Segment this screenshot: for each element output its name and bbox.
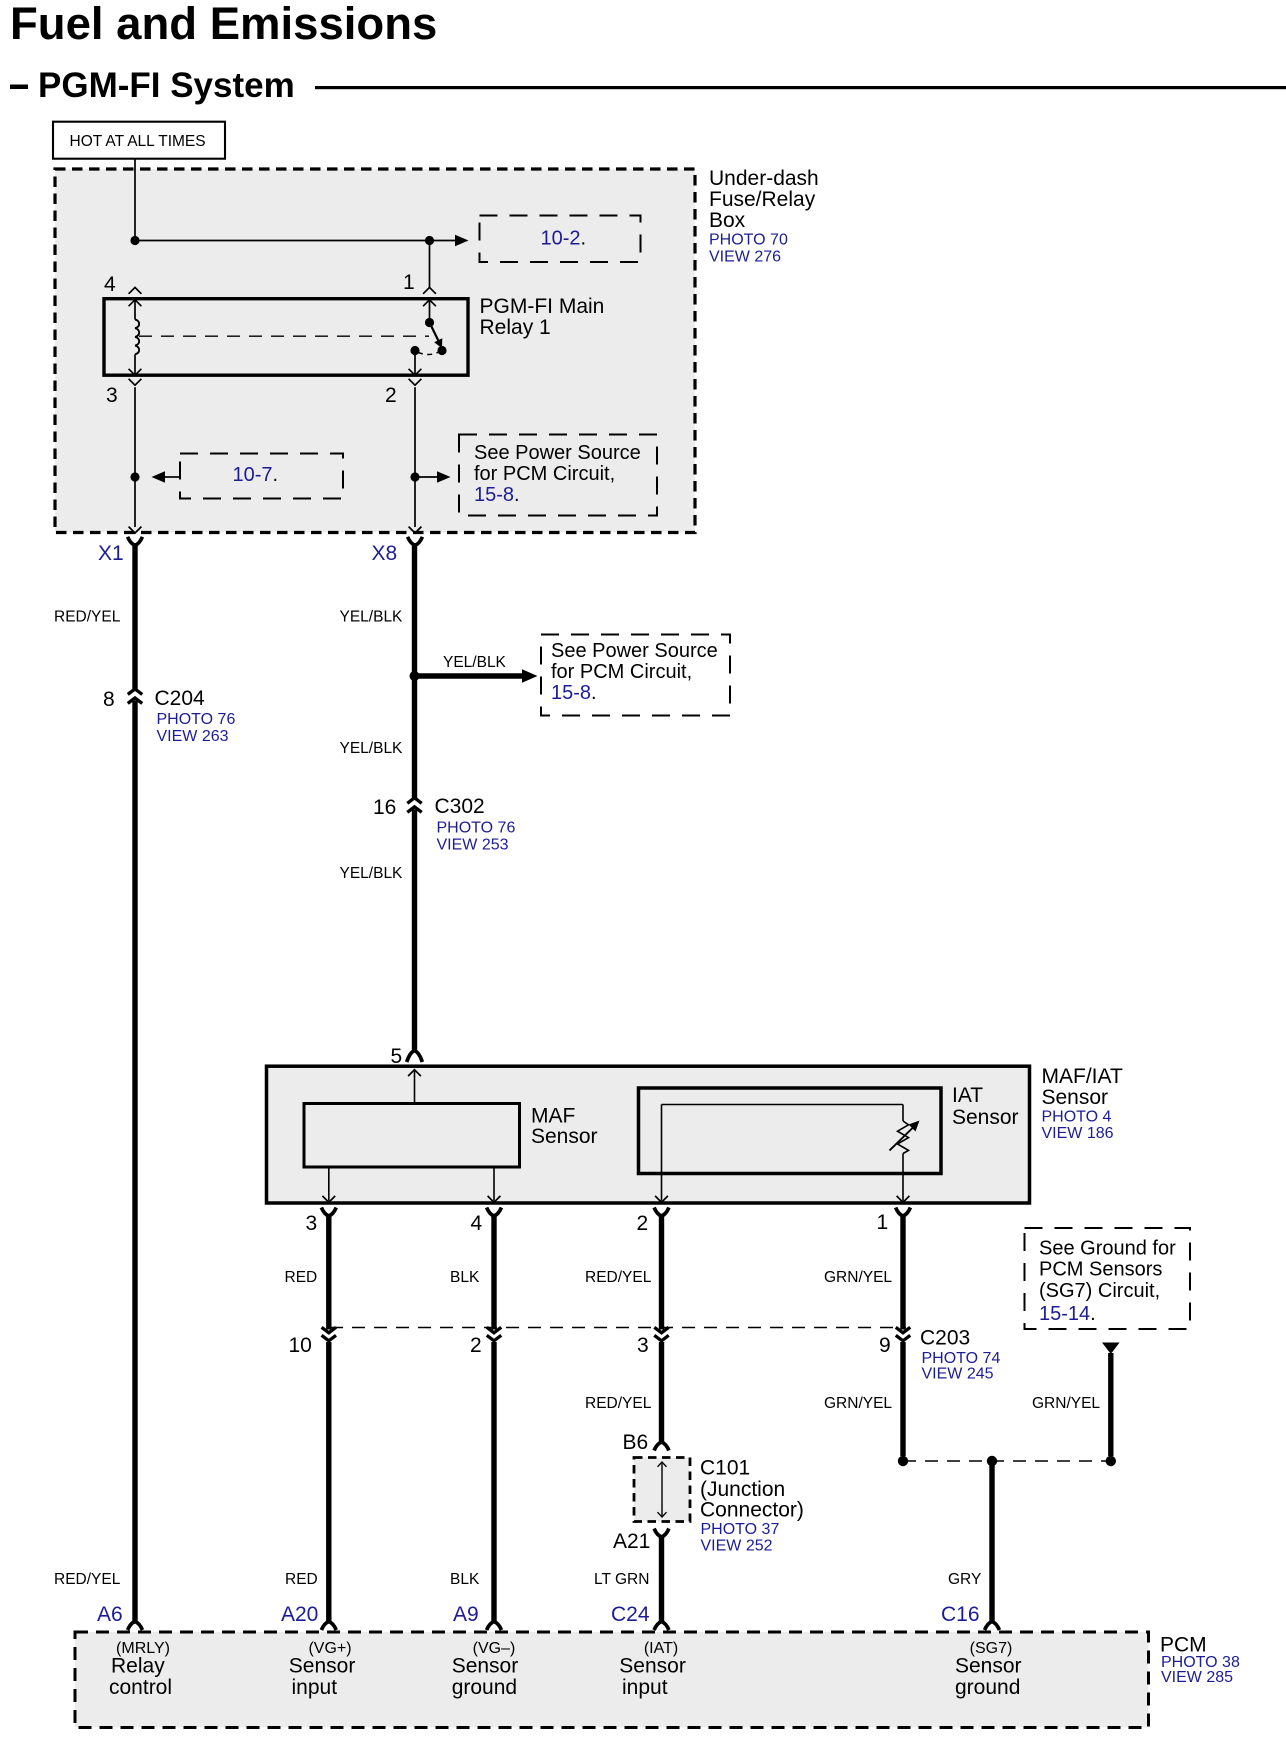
svg-text:Fuel and Emissions: Fuel and Emissions [10, 0, 437, 49]
svg-text:PHOTO 76: PHOTO 76 [437, 820, 516, 837]
wire: relay pin 4 into coil [134, 300, 136, 320]
svg-text:C203: C203 [920, 1327, 970, 1350]
svg-text:YEL/BLK: YEL/BLK [340, 740, 404, 757]
connector chevrons relay pin 3 [129, 369, 142, 375]
wire GRN/YEL pin1 to C203 [900, 1216, 905, 1330]
svg-text:C24: C24 [611, 1603, 650, 1626]
svg-text:C101: C101 [700, 1457, 750, 1480]
svg-text:for PCM Circuit,: for PCM Circuit, [551, 661, 692, 683]
connector cup A21 [654, 1529, 669, 1538]
svg-text:VIEW 276: VIEW 276 [709, 249, 781, 266]
svg-text:Sensor: Sensor [952, 1106, 1019, 1129]
svg-text:IAT: IAT [952, 1084, 983, 1107]
svg-text:PHOTO 4: PHOTO 4 [1042, 1109, 1112, 1126]
wire BLK pin4 to C203 [491, 1216, 496, 1330]
svg-text:VIEW 186: VIEW 186 [1042, 1125, 1114, 1142]
svg-text:for PCM Circuit,: for PCM Circuit, [474, 463, 615, 485]
connector C203 chevrons pin3 [654, 1327, 668, 1333]
wire YEL/BLK C302 down to MAF pin 5 [412, 809, 417, 1049]
svg-text:GRY: GRY [948, 1571, 981, 1588]
wire GRN/YEL C203 pin9 to junction [900, 1342, 905, 1456]
wire: MAF pin 3 internal [328, 1167, 330, 1201]
svg-text:15-14.: 15-14. [1039, 1303, 1096, 1325]
svg-text:MAF/IAT: MAF/IAT [1042, 1065, 1123, 1088]
connector cup PCM A9 [487, 1622, 502, 1631]
wire RED/YEL C204 down to PCM A6 [132, 701, 137, 1622]
svg-text:RED: RED [285, 1571, 318, 1588]
thick arrow to power source ref 2 [415, 673, 523, 678]
connector chevrons relay pin 2 [409, 369, 422, 375]
arrowhead from 10-7 box [152, 471, 166, 483]
svg-text:RED/YEL: RED/YEL [54, 609, 121, 626]
svg-text:PHOTO 74: PHOTO 74 [922, 1350, 1001, 1367]
svg-text:C16: C16 [941, 1603, 980, 1626]
svg-text:VIEW 245: VIEW 245 [922, 1366, 994, 1383]
svg-text:RED: RED [285, 1269, 318, 1286]
svg-text:3: 3 [106, 384, 118, 407]
svg-text:PHOTO 70: PHOTO 70 [709, 232, 788, 249]
wire GRY junction to PCM C16 [989, 1464, 994, 1621]
switch arm with arrowhead [430, 323, 439, 342]
svg-text:Relay: Relay [111, 1655, 165, 1678]
connector cup B6 [654, 1442, 669, 1451]
svg-text:3: 3 [306, 1212, 318, 1235]
connector cup PCM C24 [654, 1622, 669, 1631]
junction dashed link SG7 [903, 1460, 1111, 1462]
svg-text:A9: A9 [453, 1603, 479, 1626]
svg-text:ground: ground [452, 1676, 517, 1699]
svg-text:HOT AT ALL TIMES: HOT AT ALL TIMES [70, 133, 206, 150]
svg-text:A6: A6 [97, 1603, 123, 1626]
wire: switch to relay pin 2 [414, 351, 416, 375]
svg-text:16: 16 [373, 796, 396, 819]
svg-text:Under-dash: Under-dash [709, 167, 819, 190]
subtitle rule [315, 86, 1286, 89]
svg-text:RED/YEL: RED/YEL [54, 1571, 121, 1588]
svg-text:YEL/BLK: YEL/BLK [340, 865, 404, 882]
svg-text:1: 1 [403, 271, 415, 294]
svg-text:A20: A20 [281, 1603, 318, 1626]
PCM box [75, 1632, 1149, 1728]
svg-text:RED/YEL: RED/YEL [585, 1395, 652, 1412]
wire: horizontal bus to 10-2 arrow [135, 240, 455, 242]
svg-text:See Ground for: See Ground for [1039, 1238, 1176, 1260]
connector cup PCM A6 [128, 1622, 143, 1631]
svg-text:C204: C204 [155, 687, 206, 710]
relay coil [135, 320, 139, 355]
svg-text:Sensor: Sensor [289, 1655, 356, 1678]
svg-text:2: 2 [385, 384, 397, 407]
wire: relay pin 2 down to X8 [414, 387, 416, 527]
arrowhead into 10-2 box [455, 235, 469, 247]
ground feed triangle [1102, 1343, 1120, 1355]
svg-text:2: 2 [470, 1334, 482, 1357]
wire: coil to relay pin 3 [134, 354, 136, 375]
wire: IAT top link [662, 1104, 904, 1106]
svg-text:VIEW 285: VIEW 285 [1161, 1669, 1233, 1686]
wire RED/YEL X1 down to C204 [132, 545, 137, 690]
wire YEL/BLK X8 down to C302 [412, 545, 417, 798]
svg-text:input: input [292, 1676, 338, 1699]
connector chevrons relay pin 1 [423, 287, 436, 293]
svg-text:input: input [622, 1676, 668, 1699]
connector cup IAT pin 2 [654, 1208, 669, 1217]
reference box 10-7 [180, 454, 343, 499]
connector C203 chevrons pin10 [322, 1327, 336, 1333]
svg-text:(SG7) Circuit,: (SG7) Circuit, [1039, 1280, 1160, 1302]
svg-text:1: 1 [877, 1211, 889, 1234]
wire GRN/YEL from ground ref [1108, 1353, 1113, 1456]
svg-text:BLK: BLK [450, 1269, 480, 1286]
svg-text:PHOTO 76: PHOTO 76 [157, 711, 236, 728]
internal arrow at pin 5 [414, 1071, 416, 1104]
exit arrowhead X8 [409, 527, 422, 533]
svg-text:Fuse/Relay: Fuse/Relay [709, 188, 816, 211]
svg-text:X1: X1 [98, 542, 124, 565]
svg-text:control: control [109, 1676, 172, 1699]
svg-text:15-8.: 15-8. [474, 484, 520, 506]
connector chevrons relay pin 4 [129, 287, 142, 293]
connector C203 dashed line [330, 1327, 906, 1329]
svg-text:Sensor: Sensor [531, 1125, 598, 1148]
svg-text:YEL/BLK: YEL/BLK [340, 609, 404, 626]
exit arrowhead X1 [129, 527, 142, 533]
reference box See Ground SG7 [1025, 1228, 1191, 1329]
svg-text:X8: X8 [372, 542, 398, 565]
svg-text:10-2.: 10-2. [541, 228, 587, 250]
connector cup X1 [128, 537, 143, 546]
connector cup IAT pin 1 [896, 1208, 911, 1217]
svg-text:4: 4 [471, 1212, 483, 1235]
node: SG7 junction mid [987, 1456, 997, 1466]
node: SG7 junction left [898, 1456, 908, 1466]
switch throw dashed arc [418, 352, 438, 354]
svg-text:Box: Box [709, 209, 746, 232]
node: YEL/BLK branch junction [410, 671, 420, 681]
junction connector C101 box [634, 1458, 690, 1522]
reference box 10-2 [480, 216, 641, 263]
svg-text:GRN/YEL: GRN/YEL [824, 1269, 892, 1286]
connector C204 chevrons [128, 689, 142, 695]
wire stub to power source box [415, 476, 437, 478]
node: junction to 10-7 [130, 472, 139, 481]
connector cup PCM A20 [321, 1622, 336, 1631]
relay internal dashed link [139, 335, 429, 337]
svg-text:GRN/YEL: GRN/YEL [1032, 1395, 1100, 1412]
HOT AT ALL TIMES box [53, 122, 225, 159]
switch contact node left (pin 2) [410, 346, 419, 355]
svg-text:PHOTO 37: PHOTO 37 [701, 1521, 780, 1538]
svg-text:PCM Sensors: PCM Sensors [1039, 1259, 1162, 1281]
connector cup MAF pin 4 [487, 1208, 502, 1217]
switch contact node right [437, 346, 446, 355]
svg-text:3: 3 [637, 1334, 649, 1357]
svg-text:10-7.: 10-7. [233, 464, 279, 486]
svg-text:PGM-FI Main: PGM-FI Main [480, 295, 605, 318]
svg-text:2: 2 [637, 1212, 649, 1235]
wire RED C203 to PCM A20 [326, 1342, 331, 1621]
svg-text:VIEW 252: VIEW 252 [701, 1538, 773, 1555]
thermistor IAT [902, 1105, 904, 1122]
svg-text:Sensor: Sensor [452, 1655, 519, 1678]
svg-text:See Power Source: See Power Source [551, 640, 718, 662]
svg-text:9: 9 [879, 1334, 891, 1357]
wire: relay pin 1 to switch contact [429, 300, 431, 323]
wire RED/YEL pin2 to C203 [659, 1216, 664, 1330]
svg-text:BLK: BLK [450, 1571, 480, 1588]
connector C203 chevrons pin9 [896, 1327, 910, 1333]
node: junction to power source ref [410, 472, 419, 481]
node: SG7 junction right [1106, 1456, 1116, 1466]
svg-text:GRN/YEL: GRN/YEL [824, 1395, 892, 1412]
svg-text:C302: C302 [435, 795, 485, 818]
relay box PGM-FI Main Relay 1 [104, 299, 468, 376]
svg-text:ground: ground [955, 1676, 1020, 1699]
wire: from junction down to relay pin 1 [429, 241, 431, 288]
wire BLK C203 to PCM A9 [491, 1342, 496, 1621]
svg-text:VIEW 263: VIEW 263 [157, 728, 229, 745]
reference box See Power Source 1 [459, 435, 657, 516]
MAF/IAT sensor outer box [267, 1066, 1030, 1203]
svg-text:Sensor: Sensor [1042, 1086, 1109, 1109]
svg-text:A21: A21 [613, 1530, 650, 1553]
svg-text:See Power Source: See Power Source [474, 442, 641, 464]
svg-text:YEL/BLK: YEL/BLK [443, 654, 507, 671]
wire RED/YEL C203 to C101 B6 [659, 1342, 664, 1442]
svg-text:Connector): Connector) [700, 1499, 804, 1522]
svg-text:VIEW 253: VIEW 253 [437, 837, 509, 854]
connector C203 chevrons pin2 [487, 1327, 501, 1333]
MAF sensor inner box [304, 1104, 520, 1168]
node: junction above relay pin 1 [425, 236, 434, 245]
switch pivot node [425, 318, 434, 327]
wire RED pin3 to C203 [326, 1216, 331, 1330]
svg-text:Sensor: Sensor [619, 1655, 686, 1678]
subtitle dash [10, 85, 28, 90]
Under-dash Fuse/Relay Box (dashed) [55, 169, 695, 533]
connector cup MAF pin 3 [321, 1208, 336, 1217]
wire: MAF pin 4 internal [493, 1167, 495, 1201]
svg-text:15-8.: 15-8. [551, 682, 597, 704]
connector C302 chevrons [407, 798, 421, 804]
IAT sensor inner box [639, 1088, 942, 1174]
svg-text:Relay 1: Relay 1 [480, 316, 551, 339]
connector cup X8 [408, 537, 423, 546]
reference box See Power Source 2 [541, 635, 730, 716]
node: junction on battery feed [130, 236, 139, 245]
svg-text:4: 4 [104, 273, 116, 296]
svg-text:8: 8 [103, 688, 115, 711]
svg-text:B6: B6 [623, 1431, 649, 1454]
connector cup PCM C16 [985, 1622, 1000, 1631]
connector cup MAF pin 5 [407, 1050, 423, 1062]
svg-text:PGM-FI System: PGM-FI System [38, 66, 295, 105]
wire stub to 10-7 box [164, 476, 180, 478]
svg-text:Sensor: Sensor [955, 1655, 1022, 1678]
wire: IAT pin 2 internal [661, 1105, 663, 1201]
C101 internal double arrow [661, 1464, 663, 1516]
svg-text:RED/YEL: RED/YEL [585, 1269, 652, 1286]
wire: battery feed from HOT box down [134, 159, 136, 241]
svg-text:LT GRN: LT GRN [594, 1571, 649, 1588]
wire LT GRN A21 to PCM C24 [659, 1537, 664, 1622]
wire: relay pin 3 down to X1 [134, 387, 136, 527]
arrowhead into power source box [437, 471, 451, 483]
svg-text:10: 10 [289, 1334, 312, 1357]
